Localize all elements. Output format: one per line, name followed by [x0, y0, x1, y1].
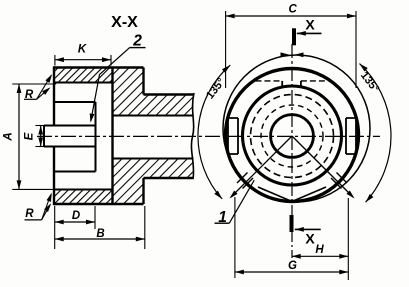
- bushing flange bottom edge: [54, 171, 96, 173]
- cup inner bottom edge: [54, 189, 113, 191]
- dimension K: [55, 59, 111, 61]
- outline cup+hub bottom edge: [54, 203, 144, 205]
- dimension H: [292, 255, 349, 257]
- spring bottom chord left: [258, 187, 292, 202]
- angle arc right 135: [360, 64, 391, 203]
- svg-text:E: E: [24, 132, 36, 140]
- outline cup+hub top edge: [54, 66, 144, 68]
- hatch hub upper: [113, 68, 194, 116]
- horizontal centerline: [37, 135, 380, 137]
- cup/hub interface: [111, 68, 113, 205]
- spring end edges lower-left: [237, 173, 248, 184]
- dimension A extension bottom: [12, 188, 56, 190]
- shaft bore bottom edge: [113, 158, 194, 160]
- top slot vertical right: [300, 81, 302, 87]
- vertical centerline: [291, 44, 293, 215]
- hub right edge upper: [142, 68, 144, 95]
- cup left edge lower: [53, 147, 55, 206]
- bushing tube left cap: [43, 126, 45, 147]
- flange outer circle thick: [226, 69, 359, 202]
- dimension E stubs: [36, 125, 47, 127]
- svg-text:R: R: [25, 208, 34, 220]
- shaft break line: [191, 93, 194, 179]
- section mark X bottom: [290, 215, 294, 232]
- dimension A extension top: [12, 83, 56, 85]
- bushing flange top edge: [54, 101, 96, 103]
- hatch cup bottom band: [54, 190, 113, 205]
- svg-text:D: D: [72, 210, 80, 222]
- svg-text:X: X: [305, 17, 315, 33]
- centerline stub below bottom bar: [291, 232, 293, 258]
- svg-text:X: X: [305, 231, 315, 247]
- dimension B line: [55, 238, 145, 240]
- svg-text:135°: 135°: [358, 70, 381, 95]
- svg-text:B: B: [96, 228, 104, 240]
- svg-text:135°: 135°: [204, 76, 227, 101]
- shaft top edge: [144, 93, 194, 95]
- top slot hidden chord right: [301, 80, 329, 82]
- groove circle thick: [243, 86, 342, 185]
- cup inner top edge: [54, 82, 113, 84]
- bushing tube bottom edge: [44, 146, 96, 148]
- angle arc left 135: [198, 65, 230, 199]
- dimension C: [226, 15, 356, 17]
- bushing tube top edge: [44, 125, 96, 127]
- shaft bottom edge: [144, 177, 194, 179]
- G extension left: [234, 197, 236, 278]
- spring bottom chord right: [292, 187, 326, 202]
- cup left edge upper: [53, 66, 55, 125]
- section mark X top: [292, 28, 296, 45]
- diagonal radius line lower-right with arrow: [292, 136, 353, 197]
- hidden circle shaft: [251, 95, 334, 178]
- svg-text:G: G: [288, 260, 297, 272]
- top slot vertical left: [281, 81, 283, 87]
- shaft bore top edge: [113, 115, 194, 117]
- hub right edge lower: [142, 178, 144, 204]
- bushing right face: [95, 102, 97, 172]
- left tab: [228, 118, 238, 154]
- outer thin circle: [223, 55, 370, 202]
- svg-text:C: C: [289, 4, 298, 16]
- svg-text:X-X: X-X: [111, 14, 138, 31]
- dimension D line: [55, 221, 95, 223]
- hatch hub lower: [113, 159, 194, 205]
- hidden circle small: [261, 105, 323, 167]
- bore circle: [271, 115, 314, 158]
- dimension B extension right: [144, 206, 146, 249]
- hatch cup top band: [54, 68, 113, 83]
- svg-text:A: A: [3, 132, 15, 141]
- right tab: [346, 118, 356, 154]
- apex arrows at slot: [281, 52, 290, 57]
- G/H extension right: [347, 198, 349, 280]
- diagonal radius line lower-left with arrow: [231, 136, 292, 197]
- dimension E line: [40, 126, 42, 147]
- svg-text:K: K: [78, 44, 87, 56]
- dimension A line: [18, 84, 20, 189]
- dimension G: [235, 271, 348, 273]
- dimension D extensions: [54, 206, 56, 249]
- top slot hidden chord left: [256, 80, 283, 82]
- svg-text:H: H: [315, 244, 324, 256]
- spring end edges lower-right: [337, 173, 348, 184]
